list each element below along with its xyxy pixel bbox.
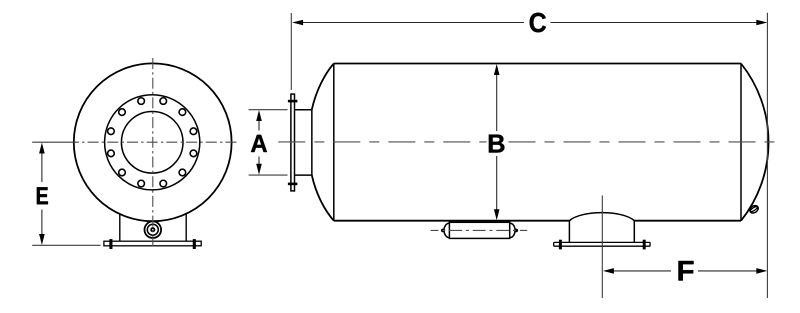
left head seam (333, 64, 335, 221)
extension line E top (32, 141, 75, 143)
bolt holes (12) (108, 98, 197, 187)
extension line E bottom (32, 244, 100, 246)
right extension line (C and F) (766, 13, 768, 298)
tank end circle (74, 63, 232, 221)
vertical centerline end view (152, 56, 154, 247)
dimension A extension top (249, 109, 288, 111)
label E (37, 187, 48, 204)
drain nub on right head (748, 204, 759, 214)
tank top line (334, 63, 741, 65)
label B (489, 135, 505, 153)
bottom nozzle flange plate (554, 242, 650, 246)
saddle side right (185, 214, 187, 242)
dimension C line + arrows (292, 20, 767, 26)
dimension E line + arrows (39, 143, 45, 246)
right head curve (741, 64, 769, 221)
tank bottom line right part (634, 220, 741, 222)
base plate (104, 241, 201, 246)
flange outer circle (105, 95, 200, 190)
nozzle flange plate (291, 94, 295, 191)
right head seam (740, 64, 742, 221)
capsule centerline (431, 229, 528, 231)
bottom nozzle side left (568, 221, 570, 242)
dimension A line + arrows (256, 110, 262, 175)
left head upper curve (312, 64, 334, 110)
label A (251, 135, 267, 152)
base bolt left (109, 239, 112, 249)
base bolt right (193, 239, 196, 249)
dimension A extension bottom (249, 174, 288, 176)
saddle side left (119, 214, 121, 242)
left head lower curve (312, 175, 334, 221)
flange inner circle (121, 112, 183, 174)
horizontal centerline end view (75, 141, 238, 143)
label F (678, 261, 693, 281)
bottom nozzle side right (633, 221, 635, 242)
tank bottom line left part (334, 220, 570, 222)
flange bolt bottom (288, 183, 298, 186)
drain boss circles (145, 221, 162, 238)
bottom nozzle arc (569, 213, 634, 221)
nozzle neck top line (294, 109, 311, 111)
dimension B line + arrows (494, 64, 500, 220)
flange bolt top (288, 100, 298, 103)
nozzle neck bottom line (294, 174, 311, 176)
element capsule body (449, 222, 509, 238)
bottom flange bolt right (643, 240, 646, 250)
C extension left (290, 13, 292, 90)
bottom nozzle centerline / F extension (601, 196, 603, 299)
capsule right cap (510, 223, 518, 238)
capsule left cap (441, 223, 449, 238)
bottom flange bolt left (559, 240, 562, 250)
tank horizontal centerline (278, 141, 778, 143)
dimension F line + arrows (603, 268, 767, 274)
left head extremity edge (311, 110, 313, 175)
label C (530, 13, 546, 33)
